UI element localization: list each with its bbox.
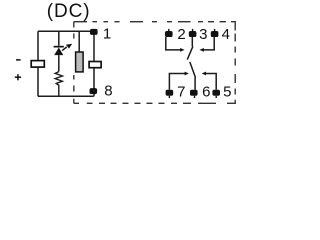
svg-text:6: 6	[202, 83, 210, 100]
svg-text:4: 4	[222, 26, 230, 43]
svg-text:2: 2	[177, 26, 185, 43]
svg-text:7: 7	[177, 83, 185, 100]
svg-text:8: 8	[104, 83, 112, 100]
svg-text:5: 5	[223, 83, 231, 100]
svg-text:1: 1	[103, 26, 111, 43]
svg-text:(DC): (DC)	[47, 1, 91, 22]
svg-text:3: 3	[199, 26, 207, 43]
